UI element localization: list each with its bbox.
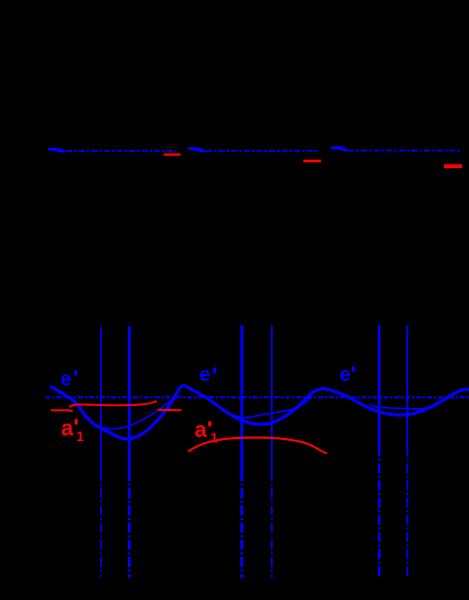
vertical line P3 left (thick) solid part: [378, 325, 381, 446]
svg-text:e: e: [61, 368, 72, 390]
svg-text:e: e: [340, 364, 351, 386]
svg-text:a: a: [195, 417, 208, 442]
level L1 red level a1: [164, 153, 181, 155]
apostrophe of e-prime panel 2: [213, 368, 216, 374]
level L2 dash-dot line: [206, 150, 320, 152]
e-prime thin band curve panel 3: [369, 405, 436, 409]
apostrophe of a1-prime panel 1: [75, 419, 78, 425]
svg-text:1: 1: [76, 428, 84, 444]
svg-text:e: e: [199, 364, 210, 386]
a1-prime red band panel 1 middle arc: [70, 401, 158, 407]
a1-prime red band panel 1 left flat segment: [51, 410, 73, 411]
a1-prime red band panel 1 right flat segment: [158, 409, 182, 411]
svg-text:a: a: [61, 416, 74, 441]
Fermi level dash-dot horizontal line: [46, 396, 469, 398]
vertical line P3 right (thin) dash-dot part: [406, 446, 408, 577]
vertical line P1 right (thick) dash-dot part: [128, 471, 131, 578]
vertical line P3 right (thin) solid part: [406, 325, 408, 446]
a1-prime red band panel 2 arch: [188, 438, 327, 454]
level L3 blue wedge: [331, 146, 350, 152]
vertical line P3 left (thick) dash-dot part: [378, 446, 381, 577]
vertical line P2 left (thick) dash-dot part: [240, 471, 243, 578]
vertical line P2 left (thick) solid part: [240, 325, 243, 471]
svg-text:1: 1: [210, 430, 218, 446]
vertical line P1 right (thick) solid part: [128, 326, 131, 471]
e-prime thick band curve (continuous across panels): [50, 386, 469, 439]
level L1 dash-dot line: [66, 150, 177, 152]
e-prime thin band curve panel 2: [219, 398, 311, 418]
level L3 red level a1: [444, 164, 462, 168]
level L1 blue wedge: [48, 148, 67, 154]
vertical line P2 right (thin) solid part: [271, 325, 273, 471]
vertical line P1 left (thin) dash-dot part: [100, 471, 102, 577]
apostrophe of e-prime panel 1: [74, 370, 77, 376]
level L2 blue wedge: [188, 147, 207, 153]
e-prime thin band curve panel 1: [83, 400, 172, 429]
vertical line P1 left (thin) solid part: [100, 327, 102, 472]
level L3 dash-dot line: [349, 150, 462, 152]
apostrophe of e-prime panel 3: [352, 366, 355, 372]
vertical line P2 right (thin) dash-dot part: [271, 471, 273, 578]
level L2 red level a1: [303, 160, 321, 163]
apostrophe of a1-prime panel 2: [208, 421, 211, 426]
